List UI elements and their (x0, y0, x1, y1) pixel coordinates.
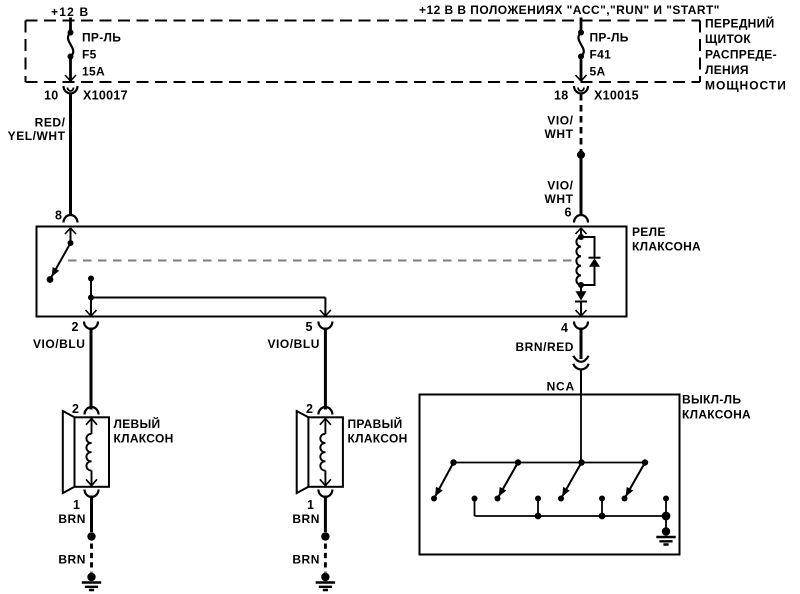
node bottom junction 3 (662, 512, 671, 521)
pin 8 entry arrow (65, 228, 76, 234)
svg-text:18: 18 (554, 89, 569, 103)
relay coil (578, 234, 584, 240)
node bus dot 1 (450, 459, 456, 465)
connector X10017 (64, 86, 78, 94)
svg-text:КЛАКСОН: КЛАКСОН (114, 432, 174, 446)
svg-text:4: 4 (561, 321, 568, 335)
svg-text:КЛАКСОНА: КЛАКСОНА (682, 407, 751, 421)
node bottom junction 2 (599, 513, 606, 520)
power distribution box (dashed) (26, 21, 701, 83)
svg-text:BRN: BRN (58, 553, 86, 567)
contact 2 stub (535, 496, 541, 502)
splice left horn (87, 532, 95, 540)
contact 4 stub (663, 496, 669, 502)
wire to pin 5, arrow (324, 298, 326, 317)
svg-text:WHT: WHT (545, 127, 574, 141)
top bus (454, 462, 646, 464)
svg-text:15A: 15A (82, 65, 105, 79)
svg-text:RED/: RED/ (35, 116, 66, 130)
contact 1 stub (472, 496, 478, 502)
node junction pin2/pin5 (88, 295, 94, 301)
wire BRN left dashed (90, 544, 93, 573)
wire BRN right (324, 496, 327, 533)
power distribution box label (705, 16, 787, 93)
svg-text:VIO/BLU: VIO/BLU (267, 337, 320, 351)
inline connector (female half) (573, 364, 588, 370)
wire BRN left (90, 496, 93, 533)
wire VIO/BLU right (324, 328, 327, 410)
svg-text:5A: 5A (590, 65, 606, 79)
svg-text:2: 2 (72, 320, 79, 334)
node bottom junction 1 (535, 513, 542, 520)
left horn (63, 411, 109, 493)
wire VIO/BLU left (90, 328, 93, 410)
svg-text:+12 В: +12 В (51, 5, 89, 19)
svg-text:F41: F41 (590, 48, 612, 62)
switch arm 4 (625, 463, 646, 499)
node bus dot 4 (642, 459, 648, 465)
svg-text:ЛЕНИЯ: ЛЕНИЯ (705, 63, 749, 77)
connector X10015 (574, 86, 588, 94)
svg-text:ПР-ЛЬ: ПР-ЛЬ (82, 31, 121, 45)
switch arm 3 (561, 463, 582, 499)
node bus dot 2 (515, 459, 521, 465)
splice S100 (577, 151, 585, 159)
svg-text:КЛАКСОНА: КЛАКСОНА (632, 240, 701, 254)
svg-text:VIO/BLU: VIO/BLU (33, 337, 86, 351)
svg-text:VIO/: VIO/ (547, 179, 573, 193)
svg-text:ЛЕВЫЙ: ЛЕВЫЙ (114, 416, 161, 431)
svg-text:ПЕРЕДНИЙ: ПЕРЕДНИЙ (705, 16, 775, 31)
svg-text:1: 1 (73, 498, 80, 512)
svg-text:X10017: X10017 (83, 89, 128, 103)
wire fuse F5 to connector, arrow (69, 57, 72, 82)
relay mechanical link (dashed) (68, 260, 576, 262)
wire into switch (580, 395, 582, 463)
svg-text:6: 6 (565, 206, 572, 220)
fuse F5 (68, 30, 74, 36)
switch arm 1 (434, 463, 454, 499)
ground right horn (316, 573, 335, 590)
svg-text:VIO/: VIO/ (547, 114, 573, 128)
ground left horn (82, 573, 101, 590)
svg-text:КЛАКСОН: КЛАКСОН (348, 432, 408, 446)
ground switch (656, 527, 675, 544)
svg-text:+12 В В ПОЛОЖЕНИЯХ "ACC","RUN": +12 В В ПОЛОЖЕНИЯХ "ACC","RUN" И "START" (419, 3, 720, 17)
svg-text:BRN/RED: BRN/RED (515, 340, 574, 354)
horn relay box (37, 227, 627, 317)
contact 3 stub (599, 496, 605, 502)
svg-text:BRN: BRN (58, 512, 86, 526)
right horn pin 1 (318, 490, 332, 498)
pin 6 entry arrow (576, 228, 587, 234)
right horn (297, 411, 343, 493)
fuse F41 (578, 30, 584, 36)
wire BRN right dashed (324, 544, 327, 573)
svg-text:ЩИТОК: ЩИТОК (705, 32, 751, 46)
svg-text:РАСПРЕДЕ-: РАСПРЕДЕ- (705, 48, 777, 62)
svg-text:РЕЛЕ: РЕЛЕ (632, 225, 666, 239)
svg-text:10: 10 (44, 89, 59, 103)
wire diode to pin 4, arrow (580, 302, 582, 317)
left horn pin 1 (85, 490, 99, 498)
wire VIO/WHT dashed upper (580, 94, 583, 151)
svg-text:1: 1 (307, 498, 314, 512)
svg-text:5: 5 (306, 320, 313, 334)
wire NCA (580, 370, 582, 396)
switch arm 2 (498, 463, 519, 499)
wire to switch ground (665, 516, 667, 532)
svg-text:WHT: WHT (545, 192, 574, 206)
wire +12V to fuse F5 (69, 18, 72, 33)
series diode D2 (580, 285, 582, 292)
svg-text:МОЩНОСТИ: МОЩНОСТИ (705, 79, 787, 93)
wire VIO/WHT lower (580, 158, 583, 216)
node bus dot 3 (578, 459, 584, 465)
svg-text:2: 2 (72, 402, 79, 416)
wire junction to pin5 (91, 297, 325, 299)
bottom bus (475, 515, 667, 517)
svg-text:ВЫКЛ-ЛЬ: ВЫКЛ-ЛЬ (682, 393, 741, 407)
relay clamp diode D1 (581, 237, 595, 285)
svg-text:ПРАВЫЙ: ПРАВЫЙ (348, 416, 403, 431)
svg-text:F5: F5 (82, 48, 97, 62)
svg-text:2: 2 (306, 402, 313, 416)
svg-text:BRN: BRN (292, 512, 320, 526)
svg-text:8: 8 (55, 209, 62, 223)
svg-text:ПР-ЛЬ: ПР-ЛЬ (590, 31, 629, 45)
wire RED/YEL/WHT (69, 93, 72, 216)
wire pin8 to contact (70, 228, 72, 243)
wire BRN/RED (580, 328, 583, 360)
svg-text:BRN: BRN (292, 553, 320, 567)
wire +12V to fuse F41 (580, 18, 583, 33)
horn switch box (420, 395, 680, 555)
svg-text:X10015: X10015 (594, 89, 639, 103)
svg-text:YEL/WHT: YEL/WHT (8, 129, 66, 143)
wire junction to pin 2, arrow (90, 298, 92, 317)
relay switch arm (68, 240, 74, 246)
splice right horn (321, 532, 329, 540)
inline connector (male half) (573, 356, 588, 362)
wire pin6 to coil (580, 228, 582, 237)
relay common contact (88, 276, 94, 282)
wire fuse F41 to connector, arrow (580, 57, 583, 82)
svg-text:NCA: NCA (547, 380, 575, 394)
